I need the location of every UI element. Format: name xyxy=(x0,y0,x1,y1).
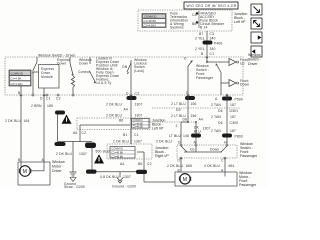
svg-text:2 BRN: 2 BRN xyxy=(31,104,42,108)
svg-text:ON: ON xyxy=(122,65,128,69)
svg-text:C1=48 BK: C1=48 BK xyxy=(133,123,144,125)
svg-text:156: 156 xyxy=(191,114,197,118)
svg-text:BLU: BLU xyxy=(194,130,201,134)
svg-text:Down: Down xyxy=(240,83,249,87)
svg-text:B7: B7 xyxy=(199,32,203,36)
svg-text:Right I/P: Right I/P xyxy=(155,154,169,158)
svg-text:D6: D6 xyxy=(218,109,223,113)
svg-text:W/O SEO OR W/ SEO 4-DR: W/O SEO OR W/ SEO 4-DR xyxy=(187,4,237,8)
svg-text:C2=4 WH: C2=4 WH xyxy=(143,24,155,28)
svg-text:Up: Up xyxy=(240,62,245,66)
svg-text:D6: D6 xyxy=(218,121,223,125)
svg-text:B6: B6 xyxy=(119,119,123,123)
svg-text:Down: Down xyxy=(79,62,88,66)
svg-text:Down: Down xyxy=(210,148,219,152)
svg-text:C2: C2 xyxy=(147,162,152,166)
svg-text:Switch -: Switch - xyxy=(248,58,262,62)
svg-text:C8: C8 xyxy=(192,13,197,17)
svg-text:Down: Down xyxy=(57,62,66,66)
svg-text:2 DK BLU: 2 DK BLU xyxy=(56,152,72,156)
svg-text:D301: D301 xyxy=(230,109,239,113)
svg-text:Window: Window xyxy=(52,160,65,164)
svg-text:C: C xyxy=(221,159,224,163)
svg-text:C1=48 BK: C1=48 BK xyxy=(111,151,123,155)
svg-text:340: 340 xyxy=(210,37,216,41)
svg-text:C1: C1 xyxy=(46,97,51,101)
svg-text:C1: C1 xyxy=(210,52,215,56)
svg-text:(Lock): (Lock) xyxy=(134,69,144,73)
svg-text:Window: Window xyxy=(248,53,261,57)
svg-text:COMM ID: COMM ID xyxy=(133,120,144,122)
svg-text:Up: Up xyxy=(190,148,195,152)
svg-text:Left I/P: Left I/P xyxy=(152,127,164,131)
svg-text:H: H xyxy=(224,141,227,145)
svg-text:C2: C2 xyxy=(56,97,61,101)
svg-text:340: 340 xyxy=(210,47,216,51)
svg-text:187: 187 xyxy=(230,115,236,119)
svg-text:2 DK BLU: 2 DK BLU xyxy=(113,140,129,144)
svg-text:1307: 1307 xyxy=(134,140,142,144)
svg-text:D: D xyxy=(184,57,187,61)
svg-text:164: 164 xyxy=(24,119,30,123)
svg-text:A4: A4 xyxy=(120,162,124,166)
svg-text:C2: C2 xyxy=(82,131,87,135)
svg-text:P800: P800 xyxy=(235,135,243,139)
svg-text:Motor -: Motor - xyxy=(52,165,64,169)
svg-text:M: M xyxy=(183,177,187,183)
svg-text:187: 187 xyxy=(230,103,236,107)
svg-text:C1: C1 xyxy=(134,133,139,137)
svg-text:D6: D6 xyxy=(183,118,188,122)
svg-text:D: D xyxy=(178,141,181,145)
svg-text:COMM ID: COMM ID xyxy=(144,15,156,19)
svg-text:187: 187 xyxy=(230,129,236,133)
svg-text:C2=4 WH: C2=4 WH xyxy=(10,82,22,86)
svg-text:A6: A6 xyxy=(73,131,77,135)
svg-text:Ground - G200: Ground - G200 xyxy=(112,185,136,189)
svg-text:B1: B1 xyxy=(123,133,127,137)
svg-text:665: 665 xyxy=(186,164,192,168)
svg-text:M: M xyxy=(23,169,27,175)
svg-text:D: D xyxy=(126,92,129,96)
svg-text:185: 185 xyxy=(47,104,53,108)
svg-text:COMM ID: COMM ID xyxy=(11,71,23,75)
svg-text:146: 146 xyxy=(183,134,189,138)
svg-text:14 & 5 Ty: 14 & 5 Ty xyxy=(96,81,112,85)
svg-text:0.8 DK BLU: 0.8 DK BLU xyxy=(100,175,120,179)
svg-text:LT BLU: LT BLU xyxy=(169,134,181,138)
svg-text:166: 166 xyxy=(191,102,197,106)
svg-text:Control: Control xyxy=(78,70,90,74)
svg-text:Passenger: Passenger xyxy=(196,76,214,80)
svg-text:Passenger: Passenger xyxy=(240,154,258,158)
svg-text:1307: 1307 xyxy=(135,103,143,107)
svg-text:2 TAN: 2 TAN xyxy=(211,115,221,119)
svg-text:500 stud: 500 stud xyxy=(96,150,110,154)
svg-text:1307: 1307 xyxy=(135,114,143,118)
svg-text:2 TAN: 2 TAN xyxy=(211,129,221,133)
svg-text:C2=48 BK: C2=48 BK xyxy=(111,154,123,158)
svg-text:2 YEL: 2 YEL xyxy=(195,37,205,41)
svg-text:B6: B6 xyxy=(138,162,142,166)
svg-text:A4: A4 xyxy=(124,108,128,112)
svg-text:Driver: Driver xyxy=(248,62,258,66)
svg-text:C1=4 BK: C1=4 BK xyxy=(10,77,21,81)
svg-text:D: D xyxy=(178,159,181,163)
svg-text:1307: 1307 xyxy=(123,175,131,179)
svg-text:2: 2 xyxy=(176,124,178,128)
svg-text:A4: A4 xyxy=(199,118,203,122)
svg-text:C300: C300 xyxy=(230,121,239,125)
svg-text:2 DK BLU: 2 DK BLU xyxy=(106,103,122,107)
svg-text:2 DK BLU: 2 DK BLU xyxy=(106,114,122,118)
svg-text:B8: B8 xyxy=(192,22,196,26)
svg-text:C1=48 BK: C1=48 BK xyxy=(143,19,156,23)
svg-text:C3: C3 xyxy=(210,32,215,36)
svg-text:Window Switch - Driver: Window Switch - Driver xyxy=(38,54,76,58)
svg-text:B 14: B 14 xyxy=(200,26,207,30)
svg-text:Driver: Driver xyxy=(52,169,62,173)
svg-text:P406: P406 xyxy=(214,42,222,46)
svg-text:2 TAN: 2 TAN xyxy=(211,103,221,107)
svg-text:1307: 1307 xyxy=(203,127,211,131)
svg-text:P500: P500 xyxy=(235,98,243,102)
svg-text:D: D xyxy=(40,97,43,101)
svg-text:D: D xyxy=(186,91,189,95)
svg-text:2 DK BLU: 2 DK BLU xyxy=(167,164,183,168)
svg-text:2 DK BLU: 2 DK BLU xyxy=(156,140,172,144)
svg-text:2 DK BLU: 2 DK BLU xyxy=(5,119,21,123)
svg-text:Passenger: Passenger xyxy=(239,183,257,187)
svg-text:2 LT BLU: 2 LT BLU xyxy=(171,102,186,106)
svg-text:Systems: Systems xyxy=(170,26,184,30)
svg-text:1307: 1307 xyxy=(79,152,87,156)
svg-text:COMM ID: COMM ID xyxy=(111,147,123,151)
svg-text:2 YEL: 2 YEL xyxy=(195,47,205,51)
svg-text:4 DK BLU: 4 DK BLU xyxy=(204,164,220,168)
svg-text:Left I/P: Left I/P xyxy=(234,20,246,24)
svg-text:661: 661 xyxy=(229,164,235,168)
svg-text:C1: C1 xyxy=(135,92,140,96)
svg-text:C2=48 BK: C2=48 BK xyxy=(133,127,144,129)
svg-text:D5: D5 xyxy=(176,108,181,112)
svg-text:Module: Module xyxy=(41,75,53,79)
svg-text:Strap - G200: Strap - G200 xyxy=(64,185,85,188)
